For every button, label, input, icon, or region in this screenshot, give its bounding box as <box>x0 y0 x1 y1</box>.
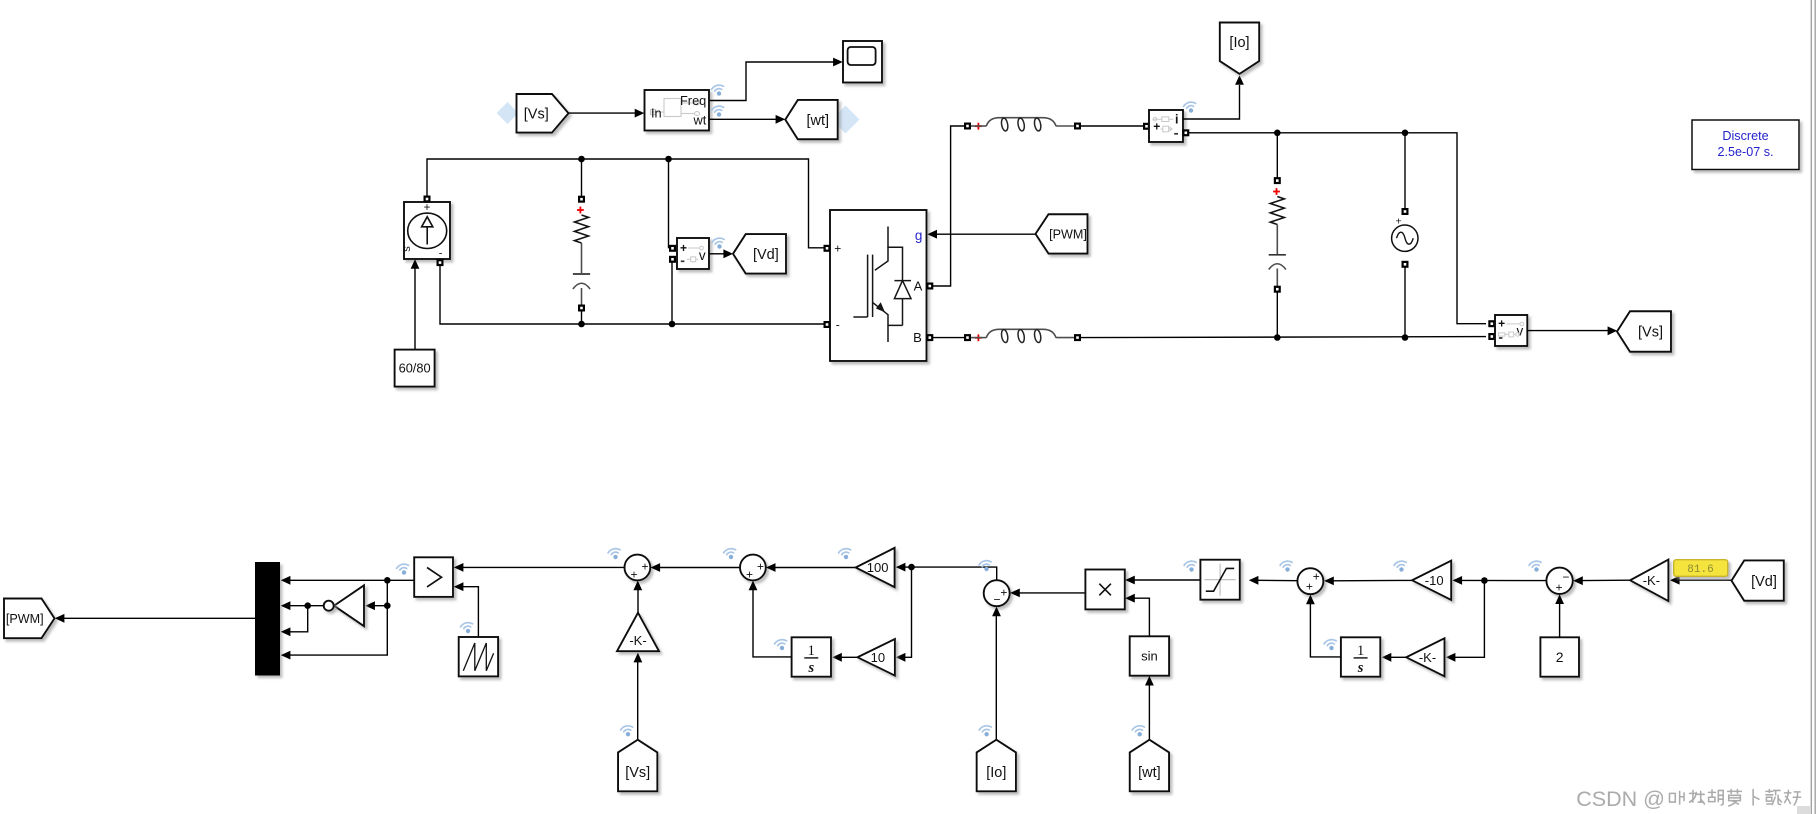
port IGBT B <box>926 334 933 341</box>
svg-text:+: + <box>630 568 637 582</box>
svg-text:100: 100 <box>867 560 889 575</box>
wire gain10 to integrator1 <box>842 656 858 658</box>
port IGBT - <box>824 321 831 328</box>
port dc source - <box>437 259 444 266</box>
wire gain100 to sum2 <box>775 567 856 569</box>
port dc source + <box>424 196 431 203</box>
wifi badge saturation <box>1183 560 1198 573</box>
wire sin to product in2 <box>1134 598 1150 636</box>
product block X <box>1085 570 1124 610</box>
junction load branch bottom <box>1274 334 1281 341</box>
svg-text:-: - <box>439 248 443 260</box>
wifi badge Vs from <box>620 725 635 738</box>
wire branch down to NOT and mux in4 <box>289 580 388 655</box>
from tag [PWM] top <box>1036 214 1088 253</box>
svg-text:[Io]: [Io] <box>1229 35 1249 51</box>
wifi badge wt out <box>711 105 726 118</box>
wifi badge integrator2 <box>1323 638 1338 651</box>
wire gain-K3 to sum5 <box>1582 579 1631 581</box>
dc current source block <box>404 202 450 259</box>
sum block S5 (- +) <box>1546 568 1572 594</box>
svg-text:s: s <box>807 660 814 676</box>
junction top bus at RC branch <box>578 156 585 163</box>
wire v to [Vd] tag <box>709 253 724 255</box>
wire product to sum3 <box>1019 592 1086 594</box>
wire sum2 to sum1 <box>659 567 740 569</box>
svg-text:[Vs]: [Vs] <box>524 107 549 123</box>
voltage measurement V1 (Vd) <box>668 159 670 248</box>
from tag [Vd] bottom-right <box>1732 560 1784 600</box>
svg-text:-10: -10 <box>1425 573 1444 588</box>
wire dc source minus to bottom bus <box>440 266 824 324</box>
wire mux out to [PWM] <box>64 617 256 619</box>
junction bottom bus RC <box>578 321 585 328</box>
svg-text:+: + <box>424 202 431 214</box>
svg-text:Freq: Freq <box>680 93 706 108</box>
goto tag [Io] top <box>1220 23 1259 74</box>
svg-text:[Vs]: [Vs] <box>625 765 650 781</box>
gain -K- (Vd input) <box>1630 560 1668 602</box>
wire top bus AC side <box>1189 133 1486 324</box>
voltage measurement V2 (Vs) <box>1488 320 1495 327</box>
junction load branch top <box>1274 130 1281 137</box>
relational operator gt block <box>414 557 453 597</box>
svg-text:60/80: 60/80 <box>399 361 431 376</box>
current measurement I1 (Io) <box>1143 123 1150 130</box>
sum block S1 (+ +) <box>625 555 651 581</box>
IGBT half-bridge block <box>830 210 927 361</box>
wire [wt] to sin <box>1148 685 1150 740</box>
svg-text:81.6: 81.6 <box>1687 564 1713 576</box>
wifi badge Io from <box>979 725 994 738</box>
svg-text:+: + <box>680 241 687 255</box>
gain -K- (Vs feedforward) <box>617 613 659 652</box>
goto tag [wt] <box>832 106 860 134</box>
svg-text:A: A <box>914 278 923 293</box>
svg-text:s: s <box>1357 660 1364 676</box>
wire saturation to product in1 <box>1134 579 1201 581</box>
junction ac source top <box>1402 130 1409 137</box>
wire NOT out to mux in2 <box>289 605 324 607</box>
series RLC load branch R2 C2 <box>1276 133 1278 178</box>
svg-text:g: g <box>915 228 923 243</box>
gain 10 <box>858 639 895 676</box>
wifi badge sum3 <box>978 559 993 572</box>
sin block <box>1130 636 1169 675</box>
svg-text:[Vd]: [Vd] <box>753 247 779 263</box>
svg-text:2: 2 <box>1556 649 1564 665</box>
svg-text:Discrete: Discrete <box>1722 129 1768 143</box>
NOT gate (logical operator) <box>334 585 364 626</box>
svg-text:+: + <box>1000 586 1007 600</box>
svg-text:[PWM]: [PWM] <box>6 612 44 626</box>
wire [Io] to sum3 <box>995 616 997 740</box>
gain -10 <box>1412 561 1451 600</box>
port I1 out <box>1182 129 1189 136</box>
svg-text:CSDN @: CSDN @ <box>1576 787 1665 811</box>
wire sawtooth to gt in2 <box>463 587 479 637</box>
wifi badge gt <box>396 563 411 576</box>
wifi badge sawtooth <box>460 621 475 634</box>
mux block (black) <box>255 562 280 676</box>
integrator 1/s (right) <box>1341 637 1380 676</box>
wifi badge integrator1 <box>774 638 789 651</box>
wire sum5 to junction to gain-10 <box>1461 579 1547 581</box>
svg-text:sin: sin <box>1141 649 1158 664</box>
wire i signal to [Io] tag <box>1183 85 1240 119</box>
branch down to gain10 <box>905 567 912 657</box>
inductor L1 (top) <box>964 123 971 130</box>
junction gt out <box>384 577 391 584</box>
svg-text:[PWM]: [PWM] <box>1049 227 1087 241</box>
sum block S4 (+ +) <box>1297 568 1323 594</box>
wire gain-10 to sum4 <box>1333 579 1413 581</box>
wire sum3 up and to gain100 and branch <box>912 567 997 580</box>
svg-text:In: In <box>651 106 662 121</box>
wifi badge Io out <box>1183 101 1198 114</box>
wire gain to sum1 <box>637 590 639 613</box>
wire integrator2 to sum4 <box>1310 604 1341 657</box>
constant block 2 <box>1540 637 1579 676</box>
svg-text:[Vd]: [Vd] <box>1751 574 1777 590</box>
svg-text:[wt]: [wt] <box>1138 765 1161 781</box>
wire NOT out branch to mux in3 <box>289 606 308 632</box>
svg-text:+: + <box>641 560 648 574</box>
from tag [Io] bottom <box>977 740 1016 792</box>
junction not input branch <box>384 602 391 609</box>
wire v to [Vs] goto <box>1527 330 1608 332</box>
wire L1 to current measurement <box>1081 125 1143 127</box>
wire A to inductor L1 <box>933 126 964 286</box>
scope block <box>843 41 882 83</box>
svg-text:-K-: -K- <box>629 633 646 648</box>
junction NOT out <box>304 602 311 609</box>
svg-text:-K-: -K- <box>1643 573 1660 588</box>
svg-text:+: + <box>1555 580 1562 594</box>
constant block 60/80 <box>395 350 435 387</box>
from tag [Vs] top-left <box>497 102 519 124</box>
junction ac source bottom <box>1402 334 1409 341</box>
svg-text:wt: wt <box>692 112 706 127</box>
svg-text:+: + <box>834 241 841 255</box>
wifi badge sum2 <box>723 547 738 560</box>
wire bottom bus AC side <box>933 337 964 339</box>
svg-text:s: s <box>401 246 413 252</box>
subsystem Freq/wt block U1 <box>645 90 710 131</box>
wifi badge gain100 <box>838 547 853 560</box>
wifi badge sum5 <box>1528 560 1543 573</box>
svg-text:+: + <box>746 568 753 582</box>
wire constant 2 to sum5 <box>1559 603 1561 637</box>
wifi badge sum1 <box>607 547 622 560</box>
junction top bus at voltmeter <box>665 156 672 163</box>
wire wt to [wt] tag <box>709 118 776 120</box>
junction gain100 input <box>908 564 915 571</box>
svg-text:10: 10 <box>871 650 885 665</box>
wire sum4 to saturation <box>1258 579 1298 581</box>
wire top bus DC <box>427 159 824 248</box>
branch junction down to gain -K- <box>1455 581 1485 658</box>
wire s input from 60/80 <box>414 261 416 350</box>
junction feedback <box>1481 577 1488 584</box>
wifi badge Freq out <box>711 84 726 97</box>
wifi badge gain-10 <box>1393 560 1408 573</box>
wire integrator1 to sum2 <box>753 590 792 657</box>
svg-text:−: − <box>1562 570 1569 584</box>
svg-text:[Vs]: [Vs] <box>1638 325 1663 341</box>
sum block S3 (- +) <box>984 580 1010 606</box>
port IGBT A <box>926 283 933 290</box>
wire L2 to voltmeter V2 <box>1081 337 1486 338</box>
svg-text:−: − <box>993 593 1000 607</box>
wire Freq to scope <box>709 62 834 101</box>
svg-text:+: + <box>1498 317 1505 331</box>
goto tag [Vs] right <box>1617 311 1671 352</box>
wire gt out to mux in1 <box>290 579 415 581</box>
svg-text:+: + <box>757 560 764 574</box>
svg-text:1: 1 <box>1357 643 1364 659</box>
svg-text:-: - <box>836 317 840 331</box>
wire -K- to integrator2 <box>1391 656 1407 658</box>
AC voltage source <box>1404 133 1406 209</box>
svg-text:1: 1 <box>808 643 815 659</box>
from tag [Vs] bottom <box>618 740 657 792</box>
gain -K- (feedback) <box>1406 638 1444 676</box>
port IGBT + <box>824 245 831 252</box>
integrator 1/s (left) <box>792 637 831 676</box>
repeating sequence sawtooth block <box>459 637 498 676</box>
svg-text:-K-: -K- <box>1419 650 1436 665</box>
wifi badge Vd out <box>711 237 726 250</box>
wire [Vs] to In <box>569 112 636 114</box>
wire [Vs] tag to gain <box>637 662 639 740</box>
goto tag [Vd] <box>733 234 786 273</box>
wifi badge sum4 <box>1279 560 1294 573</box>
svg-text:[wt]: [wt] <box>806 113 829 129</box>
wifi badge wt from <box>1132 725 1147 738</box>
IGBT internal symbol <box>853 227 911 343</box>
inductor L2 (bottom) <box>964 334 971 341</box>
wire PWM to g <box>937 233 1036 235</box>
svg-text:+: + <box>1306 580 1313 594</box>
svg-text:B: B <box>913 330 922 345</box>
scrollbar right <box>1811 0 1816 814</box>
powergui Discrete block <box>1692 120 1799 170</box>
svg-text:2.5e-07 s.: 2.5e-07 s. <box>1717 145 1773 159</box>
saturation block <box>1200 560 1239 600</box>
wire [Vd] to gain-K3 and value label <box>1679 579 1732 581</box>
series RLC branch R1 C1 (snubber) <box>581 159 583 196</box>
wire sum1 to gt in1 <box>463 566 625 568</box>
gain 100 <box>856 548 895 587</box>
from tag [wt] bottom <box>1130 740 1169 792</box>
value label 81.6 <box>1674 560 1728 577</box>
sum block S2 (+ +) <box>740 555 766 581</box>
svg-text:i: i <box>1175 112 1178 126</box>
wire to NOT input <box>374 605 387 607</box>
svg-text:[Io]: [Io] <box>986 765 1006 781</box>
goto tag [PWM] bottom-left <box>4 599 55 639</box>
svg-text:+: + <box>1313 570 1320 584</box>
junction bottom bus voltmeter <box>669 321 676 328</box>
